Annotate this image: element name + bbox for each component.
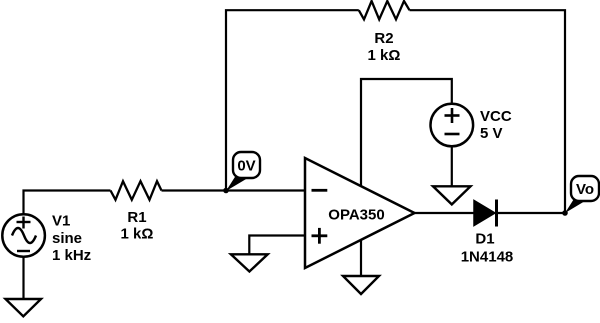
- svg-text:R1: R1: [127, 209, 146, 226]
- resistor R1: [111, 181, 162, 200]
- svg-text:1N4148: 1N4148: [461, 249, 514, 266]
- wire diode to output node: [497, 212, 565, 214]
- svg-text:VCC: VCC: [480, 108, 512, 125]
- wire plus input to ground: [249, 236, 305, 255]
- svg-text:OPA350: OPA350: [328, 207, 384, 224]
- ground (VCC): [433, 186, 471, 204]
- callout 0V: [226, 152, 260, 191]
- op-amp U1 OPA350: [305, 158, 415, 268]
- svg-text:D1: D1: [475, 231, 494, 248]
- svg-text:R2: R2: [374, 30, 393, 47]
- node A dot: [223, 188, 229, 194]
- svg-text:V1: V1: [52, 213, 70, 230]
- wire op-amp V- pin to ground: [360, 240, 362, 276]
- diode D1: [461, 200, 514, 266]
- svg-text:sine: sine: [52, 230, 82, 247]
- wire op-amp V+ pin to VCC: [361, 79, 452, 186]
- resistor R2: [359, 1, 410, 19]
- svg-text:Vo: Vo: [576, 181, 594, 198]
- ground (plus input): [231, 254, 268, 271]
- wire VCC to ground: [451, 146, 453, 186]
- wire R2 to output node: [410, 10, 566, 213]
- wire V1 top to R1: [24, 191, 111, 215]
- ground (op-amp V-): [343, 276, 379, 294]
- wire V1 to ground: [22, 258, 24, 300]
- wire R1 to op-amp minus input: [162, 189, 306, 191]
- svg-text:0V: 0V: [237, 158, 255, 175]
- wire op-amp output to diode: [414, 212, 474, 214]
- voltage source VCC: [431, 104, 512, 147]
- svg-text:1 kHz: 1 kHz: [52, 247, 91, 264]
- wire node to top rail: [226, 10, 359, 190]
- voltage source V1: [2, 213, 91, 265]
- svg-text:1 kΩ: 1 kΩ: [368, 47, 401, 64]
- svg-text:5 V: 5 V: [480, 125, 503, 142]
- ground (V1): [6, 299, 42, 316]
- node Vo dot: [562, 210, 568, 216]
- callout Vo: [565, 176, 599, 213]
- svg-text:1 kΩ: 1 kΩ: [121, 226, 154, 243]
